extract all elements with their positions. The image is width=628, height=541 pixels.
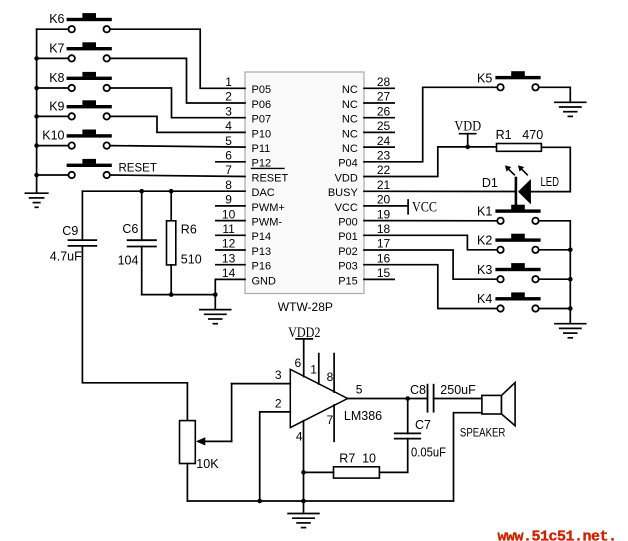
svg-text:K5: K5 (477, 71, 492, 85)
pin 9 (PWM+) (216, 193, 285, 214)
wire pin 19 to K1 (364, 220, 496, 222)
ground (IC GND) (200, 295, 231, 324)
svg-text:1: 1 (310, 362, 317, 376)
junction dots right bus (568, 248, 573, 253)
LED emission arrows (505, 165, 527, 174)
pin 2 (P06) (225, 90, 271, 111)
wire K2 to bus (540, 249, 571, 251)
pin 28 (NC) (342, 75, 394, 96)
wire K3 to bus (540, 278, 571, 280)
pin 3 wire (232, 383, 291, 385)
svg-text:18: 18 (377, 222, 391, 236)
svg-text:P06: P06 (252, 99, 272, 111)
svg-text:13: 13 (222, 251, 236, 265)
wire pin 17 to K3 (364, 250, 496, 279)
svg-text:14: 14 (222, 266, 236, 280)
op-amp U2 LM386 (290, 369, 382, 427)
svg-text:SPEAKER: SPEAKER (460, 425, 506, 439)
power VCC (pin 20) (364, 199, 437, 215)
pin 20 (VCC) (335, 193, 391, 214)
svg-text:C7: C7 (415, 418, 431, 432)
pin 1 stub (318, 354, 320, 384)
wire K7 to pin 2 (111, 58, 245, 103)
svg-text:6: 6 (295, 356, 302, 370)
wire pin 21 (BUSY) to LED cathode (364, 190, 515, 192)
svg-text:9: 9 (225, 193, 232, 207)
switch K1 (477, 205, 541, 225)
LED D1 (482, 175, 559, 204)
svg-text:10: 10 (222, 207, 236, 221)
ground (LM386) (288, 501, 319, 528)
svg-text:K1: K1 (477, 205, 492, 219)
svg-text:NC: NC (342, 143, 358, 155)
wire C7 top to output (407, 399, 409, 434)
ground (left bus) (25, 175, 47, 207)
wire C6/R6 ground rail (142, 294, 216, 296)
capacitor C7 (395, 418, 447, 460)
wire R7 left to pin4 net (304, 471, 334, 473)
svg-text:K8: K8 (49, 71, 64, 85)
pin 27 (NC) (342, 90, 394, 111)
svg-text:P01: P01 (338, 231, 358, 243)
svg-text:www.51c51.net.: www.51c51.net. (498, 529, 617, 541)
svg-text:R1: R1 (496, 128, 512, 142)
wire K9 to pin 4 (111, 116, 245, 132)
switch K6 (49, 12, 112, 32)
svg-text:P11: P11 (252, 143, 271, 155)
resistor R6 (167, 191, 202, 266)
pin 24 (NC) (342, 134, 394, 155)
svg-text:K4: K4 (477, 292, 492, 306)
svg-text:VDD: VDD (335, 172, 358, 184)
pin 22 (VDD) (335, 163, 391, 184)
svg-text:D1: D1 (482, 176, 498, 190)
wire R7 right to C7 (379, 439, 407, 473)
svg-text:NC: NC (342, 99, 358, 111)
pin 10 (PWM-) (216, 207, 282, 228)
potentiometer wiper arrow (196, 437, 232, 445)
power VDD2 (288, 325, 320, 341)
pin 4 (P10) (225, 119, 271, 140)
pin 8 (DAC) (225, 178, 275, 199)
svg-text:VDD: VDD (454, 118, 481, 134)
svg-text:RESET: RESET (252, 172, 289, 184)
wire pin 18 to K2 (364, 235, 496, 250)
pin 7 (RESET) (225, 163, 288, 184)
svg-text:5: 5 (356, 382, 363, 396)
junction dots ground rail (169, 292, 174, 297)
wire K5 to ground (540, 87, 571, 102)
svg-text:C8: C8 (410, 383, 426, 397)
svg-text:DAC: DAC (252, 187, 275, 199)
junction dot VDD (465, 145, 470, 150)
junction dot R7/pin4 (301, 470, 306, 475)
svg-text:WTW-28P: WTW-28P (278, 300, 333, 314)
pin 21 (BUSY) (328, 178, 391, 199)
wire speaker return (454, 413, 482, 501)
svg-text:P07: P07 (252, 114, 272, 126)
junction dot output/C7 (405, 396, 410, 401)
wire C9 bottom to potentiometer top (82, 246, 187, 421)
svg-text:470: 470 (522, 128, 543, 142)
wire R6 bottom (170, 265, 172, 295)
svg-text:10: 10 (362, 452, 376, 466)
svg-text:0.05uF: 0.05uF (411, 446, 446, 460)
svg-text:K9: K9 (49, 99, 64, 113)
pin 5 (P11) (225, 134, 270, 155)
pin 2 wire (260, 412, 291, 501)
pin 3 (P07) (225, 104, 271, 125)
pin 13 (P16) (216, 251, 271, 272)
svg-text:P05: P05 (252, 84, 272, 96)
svg-text:17: 17 (377, 237, 391, 251)
capacitor C9 (50, 191, 97, 264)
pin 12 (P13) (216, 237, 271, 258)
svg-text:P13: P13 (252, 246, 272, 258)
svg-text:8: 8 (327, 370, 334, 384)
svg-text:21: 21 (377, 178, 391, 192)
svg-text:20: 20 (377, 193, 391, 207)
svg-text:15: 15 (377, 266, 391, 280)
svg-text:P03: P03 (338, 261, 358, 273)
svg-text:8: 8 (225, 178, 232, 192)
wire wiper to pin 3 (231, 384, 233, 442)
wire K5 to pin 23 (364, 87, 496, 162)
svg-text:K6: K6 (49, 12, 64, 26)
switch K8 (49, 71, 112, 91)
ground (K1-K4 bus) (555, 323, 586, 325)
svg-text:4: 4 (296, 430, 303, 444)
switch K3 (477, 263, 541, 283)
capacitor C8 (410, 383, 476, 412)
switch K4 (477, 292, 541, 311)
svg-text:PWM-: PWM- (252, 217, 283, 229)
switch K5 (477, 71, 541, 90)
pin 6 wire (VDD2) (303, 339, 305, 377)
speaker LS1 (460, 383, 515, 440)
junction dots bottom rail (257, 499, 262, 504)
resistor R1 470 (496, 128, 544, 152)
svg-text:2: 2 (225, 90, 232, 104)
svg-text:R7: R7 (339, 452, 355, 466)
IC U1 WTW-28P body (245, 72, 364, 314)
svg-text:6: 6 (225, 149, 232, 163)
wire RESET to pin 7 (111, 175, 245, 177)
wire K6 to pin 1 (111, 29, 245, 88)
pin 14 (GND) (222, 266, 276, 287)
svg-text:K7: K7 (49, 41, 64, 55)
junction dots on left bus (34, 56, 39, 61)
svg-text:NC: NC (342, 114, 358, 126)
svg-text:510: 510 (181, 253, 202, 267)
wire bus to K10 (37, 145, 68, 147)
potentiometer RP 10K (180, 421, 220, 471)
wire K8 to pin 3 (111, 88, 245, 118)
svg-text:5: 5 (225, 134, 232, 148)
svg-text:104: 104 (118, 254, 139, 268)
pin 23 (P04) (338, 149, 390, 170)
svg-text:28: 28 (377, 75, 391, 89)
svg-text:P15: P15 (338, 275, 358, 287)
svg-text:VCC: VCC (335, 202, 358, 214)
wire bus to RESET (37, 174, 68, 176)
pin 11 (P14) (216, 222, 271, 243)
svg-text:P10: P10 (252, 128, 272, 140)
pin 4 wire to ground rail (303, 421, 305, 501)
svg-text:7: 7 (327, 413, 334, 427)
pin 15 (P15) (338, 266, 394, 287)
svg-text:P14: P14 (252, 231, 272, 243)
svg-text:26: 26 (377, 104, 391, 118)
svg-text:P04: P04 (338, 158, 358, 170)
svg-text:K3: K3 (477, 263, 492, 277)
wire bus to K8 (37, 87, 68, 89)
svg-text:25: 25 (377, 119, 391, 133)
capacitor C6 (118, 191, 156, 267)
junction dots DAC rail (139, 189, 144, 194)
pin 16 (P03) (338, 251, 390, 272)
svg-text:C6: C6 (122, 222, 138, 236)
svg-text:2: 2 (275, 397, 282, 411)
svg-text:24: 24 (377, 134, 391, 148)
pin 26 (NC) (342, 104, 394, 125)
svg-text:16: 16 (377, 251, 391, 265)
pin 5 output wire (348, 398, 427, 400)
power VDD (454, 118, 481, 147)
svg-text:K2: K2 (477, 234, 492, 248)
svg-text:23: 23 (377, 149, 391, 163)
pin 18 (P01) (338, 222, 390, 243)
svg-text:22: 22 (377, 163, 391, 177)
wire left bus (36, 29, 38, 175)
wire right bus K1-K4 to ground (540, 221, 571, 324)
wire bus to K6 (37, 28, 68, 30)
svg-text:GND: GND (252, 275, 277, 287)
svg-text:3: 3 (275, 368, 282, 382)
wire R1 to LED anode (531, 147, 570, 191)
wire K4 to bus (540, 308, 571, 310)
wire C8 to speaker (434, 398, 482, 400)
svg-text:10K: 10K (196, 457, 219, 471)
switch K7 (49, 41, 112, 61)
svg-text:P02: P02 (338, 246, 358, 258)
wire DAC rail (pin 8 net) (82, 190, 245, 192)
wire pin 14 (GND) down (215, 279, 245, 294)
pin 25 (NC) (342, 119, 394, 140)
svg-text:P16: P16 (252, 261, 272, 273)
svg-text:1: 1 (225, 75, 232, 89)
svg-text:19: 19 (377, 207, 391, 221)
svg-text:RESET: RESET (119, 163, 157, 175)
switch K10 (42, 129, 112, 149)
svg-text:250uF: 250uF (440, 383, 476, 397)
switch RESET (67, 159, 157, 178)
ground (K5) (555, 101, 586, 103)
wire bus to K9 (37, 115, 68, 117)
svg-text:C9: C9 (62, 224, 78, 238)
svg-text:VCC: VCC (412, 199, 437, 215)
pin 17 (P02) (338, 237, 390, 258)
svg-text:LED: LED (541, 175, 560, 189)
svg-text:4: 4 (225, 119, 232, 133)
svg-text:LM386: LM386 (344, 409, 382, 423)
pin 8 stub (333, 354, 335, 393)
wire pin 22 (VDD) to R1 (364, 147, 497, 177)
wire pin 16 to K4 (364, 265, 496, 309)
resistor R7 10 (334, 452, 380, 478)
pin 1 (P05) (225, 75, 271, 96)
switch K9 (49, 99, 112, 119)
svg-text:12: 12 (222, 237, 236, 251)
wire bus to K7 (37, 57, 68, 59)
svg-text:NC: NC (342, 128, 358, 140)
pin 7 stub (333, 405, 335, 441)
svg-text:BUSY: BUSY (328, 187, 359, 199)
pin 6 (P12) (216, 149, 271, 170)
svg-text:R6: R6 (181, 223, 197, 237)
svg-text:7: 7 (225, 163, 232, 177)
svg-text:27: 27 (377, 90, 391, 104)
wire C6 bottom (141, 247, 143, 295)
pin 19 (P00) (338, 207, 390, 228)
svg-text:K10: K10 (42, 129, 64, 143)
wire K10 to pin 5 (111, 146, 245, 148)
svg-text:11: 11 (222, 222, 235, 236)
wire pot bottom to rail (186, 464, 188, 502)
svg-text:P00: P00 (338, 217, 358, 229)
svg-text:4.7uF: 4.7uF (50, 250, 82, 264)
svg-text:NC: NC (342, 84, 358, 96)
svg-text:3: 3 (225, 104, 232, 118)
svg-text:PWM+: PWM+ (252, 202, 285, 214)
wire bottom ground rail (187, 500, 453, 502)
switch K2 (477, 234, 541, 254)
